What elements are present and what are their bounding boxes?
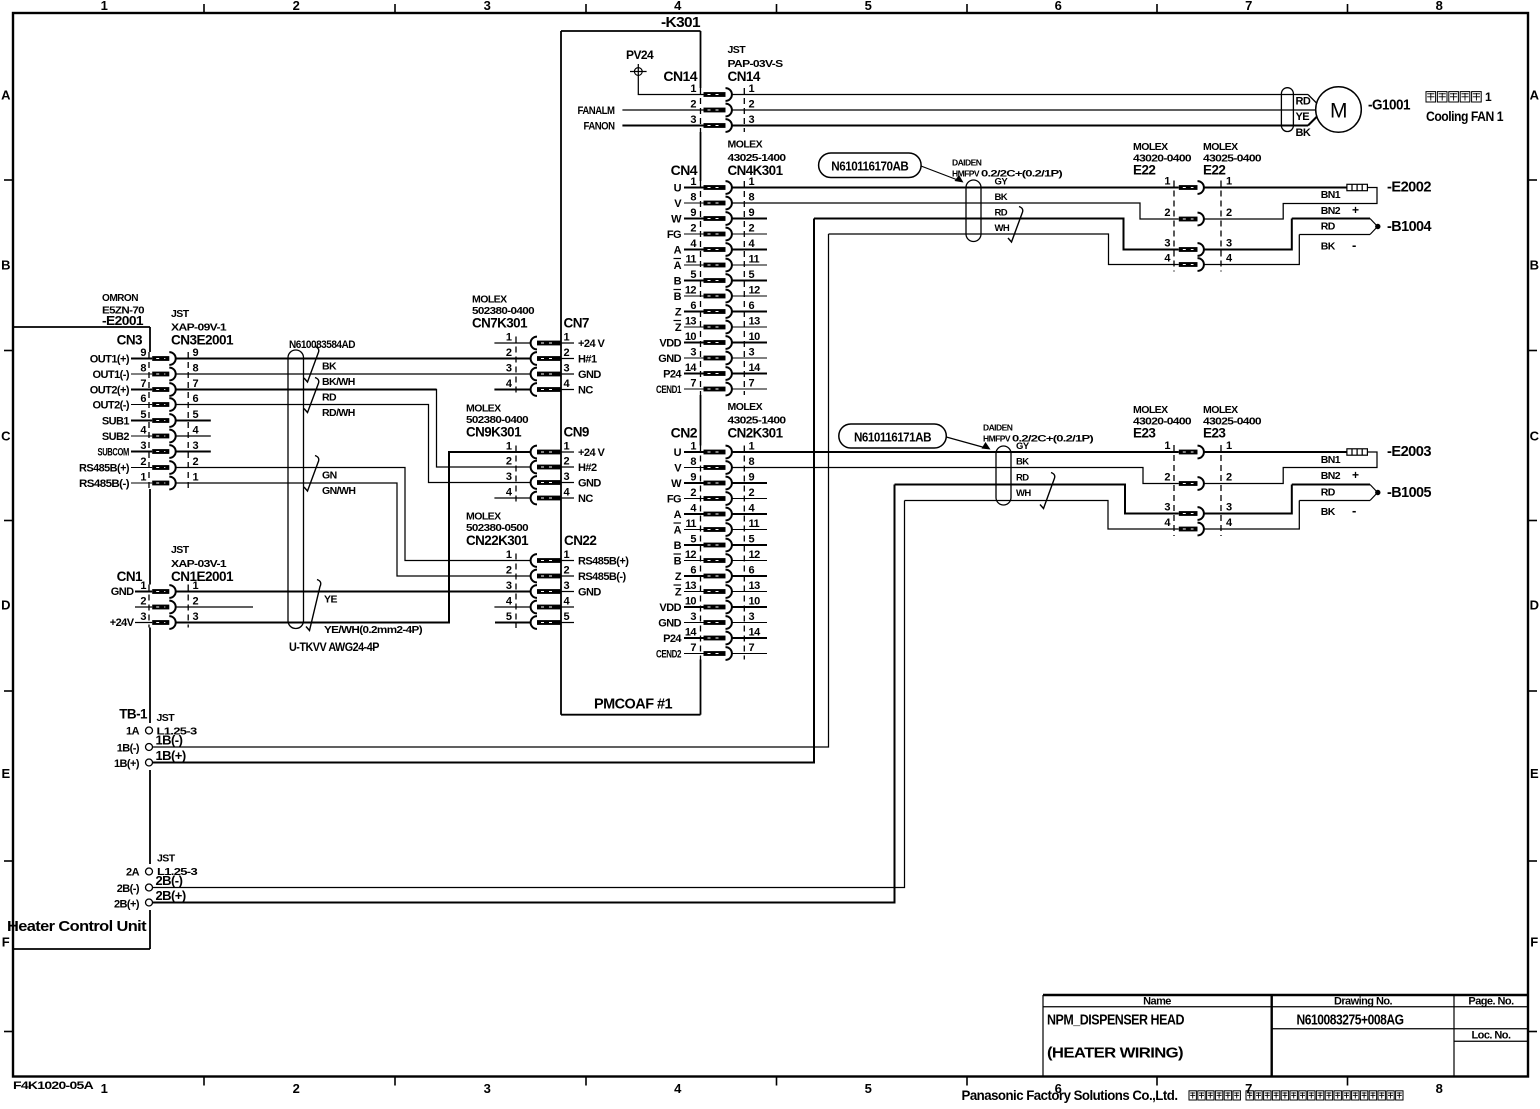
svg-text:H#2: H#2: [578, 462, 597, 474]
svg-text:7: 7: [690, 642, 696, 654]
svg-text:TB-1: TB-1: [119, 707, 148, 722]
svg-text:N610116170AB: N610116170AB: [831, 159, 908, 174]
svg-text:NC: NC: [578, 385, 593, 397]
twisted pair mark RD/WH cable 2: [1040, 473, 1055, 509]
svg-text:-: -: [1352, 503, 1356, 518]
svg-text:P24: P24: [663, 369, 682, 381]
svg-text:2: 2: [749, 487, 755, 499]
svg-text:3: 3: [140, 440, 146, 452]
heater E2002 element: [1204, 184, 1368, 190]
svg-text:1: 1: [749, 441, 755, 453]
CN22 pin 2 (RS485B(-)): [506, 565, 627, 584]
svg-text:2: 2: [690, 223, 696, 235]
svg-text:13: 13: [685, 580, 697, 592]
E23 pin 2: [1164, 472, 1232, 490]
svg-text:3: 3: [690, 611, 696, 623]
svg-text:+: +: [1352, 468, 1359, 482]
svg-text:9: 9: [193, 347, 199, 359]
svg-text:MOLEX: MOLEX: [472, 294, 507, 306]
svg-text:2: 2: [1226, 472, 1232, 484]
svg-text:A: A: [674, 260, 682, 272]
label cooling fan (Japanese): [1426, 92, 1436, 102]
CN2 pin 11 (A bar): [674, 518, 768, 537]
CN3 pin 2 (RS485B(+)): [79, 456, 199, 475]
connector pair E23 (MOLEX 43020-0400 / 43025-0400): [1133, 404, 1262, 536]
thermistor B1005 probe: [1292, 485, 1381, 501]
heater E2002 return wire BN2: [1204, 188, 1377, 220]
svg-text:VDD: VDD: [659, 602, 681, 614]
svg-text:2: 2: [506, 565, 512, 577]
motor G1001 cooling fan: [1316, 87, 1362, 133]
terminal 2B(+): [114, 888, 186, 911]
svg-text:NC: NC: [578, 493, 593, 505]
CN22 pin 5: [506, 611, 574, 629]
CN3 pin 5 (SUB1): [102, 409, 199, 428]
svg-text:CN7: CN7: [564, 316, 589, 331]
CN4 pin 4 (A): [674, 238, 767, 257]
CN2 pin 3 (GND): [658, 611, 767, 630]
svg-text:2B(-): 2B(-): [156, 873, 183, 888]
connector pair E22 (MOLEX 43020-0400 / 43025-0400): [1133, 141, 1262, 272]
svg-text:GN/WH: GN/WH: [322, 485, 355, 497]
svg-text:3: 3: [1164, 238, 1170, 250]
svg-text:2B(-): 2B(-): [117, 883, 140, 895]
CN14 pin 2: [690, 99, 754, 117]
svg-text:2: 2: [1226, 207, 1232, 219]
CN4 pin 3 (GND): [658, 347, 767, 366]
riser WH cable2 to TB 2B(-): [153, 501, 905, 888]
svg-text:9: 9: [140, 347, 146, 359]
twisted pair mark RD/RDWH: [304, 378, 319, 413]
svg-text:3: 3: [484, 0, 491, 13]
CN9 pin 3 (GND): [506, 471, 601, 490]
svg-text:F4K1020-05A: F4K1020-05A: [13, 1080, 94, 1092]
CN14 pin 3: [690, 114, 754, 132]
svg-text:GY: GY: [1016, 441, 1030, 452]
CN4 pin 2 (FG): [667, 223, 767, 242]
svg-text:10: 10: [685, 596, 697, 608]
svg-text:3: 3: [749, 611, 755, 623]
svg-text:RD: RD: [1296, 96, 1311, 108]
riser RD cable2 to TB 2B(+): [153, 485, 895, 903]
svg-text:P24: P24: [663, 633, 682, 645]
wire WH riser to E23-4: [905, 501, 1179, 530]
svg-text:CN3: CN3: [117, 333, 143, 348]
svg-text:1: 1: [564, 332, 570, 344]
svg-text:1: 1: [1226, 176, 1232, 188]
svg-text:-B1005: -B1005: [1387, 484, 1431, 501]
terminal 2B(-): [117, 873, 183, 895]
svg-text:RS485B(-): RS485B(-): [79, 478, 130, 490]
svg-text:HMFPV: HMFPV: [952, 169, 980, 179]
wire CN3-6 OUT2(-) to CN9-3 (RD/WH): [175, 405, 530, 483]
svg-text:3: 3: [193, 611, 199, 623]
svg-text:VDD: VDD: [659, 338, 681, 350]
svg-text:3: 3: [564, 580, 570, 592]
svg-text:3: 3: [564, 363, 570, 375]
svg-text:BK: BK: [1321, 506, 1336, 518]
svg-text:WH: WH: [1016, 488, 1031, 499]
svg-text:A: A: [1, 88, 11, 103]
svg-text:BN2: BN2: [1321, 470, 1341, 482]
svg-text:14: 14: [685, 627, 698, 639]
CN3 pin 1 (RS485B(-)): [79, 472, 199, 491]
terminal block TB-1 group 2: [114, 853, 198, 911]
svg-text:Page. No.: Page. No.: [1468, 996, 1514, 1008]
heater E2003 return wire BN2: [1204, 452, 1377, 484]
svg-text:7: 7: [140, 378, 146, 390]
wire CN3-2 RS485B(+) to CN22-1 (GN): [175, 468, 530, 561]
CN2 pin 4 (A): [674, 503, 767, 522]
connector CN9 of K301 (MOLEX 502380-0400, plug CN9K301): [466, 403, 606, 506]
cable 1 bundle: [966, 180, 981, 242]
svg-text:YE: YE: [324, 594, 337, 606]
svg-text:C: C: [1530, 429, 1540, 444]
Heater Control Unit enclosure outline: [13, 326, 150, 328]
svg-text:12: 12: [685, 285, 697, 297]
twisted pair mark GN/GNWH: [304, 456, 319, 492]
twisted pair mark YE/YEWH: [306, 580, 321, 631]
svg-text:CN9: CN9: [564, 425, 589, 440]
svg-text:NPM_DISPENSER HEAD: NPM_DISPENSER HEAD: [1047, 1013, 1184, 1029]
svg-text:CN1E2001: CN1E2001: [171, 569, 234, 584]
svg-text:SUB2: SUB2: [102, 431, 130, 443]
svg-text:PV24: PV24: [626, 48, 654, 62]
svg-text:BK/WH: BK/WH: [322, 376, 355, 388]
svg-text:2: 2: [749, 223, 755, 235]
svg-text:8: 8: [1436, 0, 1443, 13]
svg-text:A: A: [674, 245, 682, 257]
svg-text:Z: Z: [675, 322, 682, 334]
svg-text:2: 2: [293, 0, 300, 13]
svg-text:CN3E2001: CN3E2001: [171, 333, 234, 348]
svg-text:12: 12: [749, 549, 761, 561]
svg-text:E23: E23: [1203, 426, 1226, 441]
svg-text:1: 1: [1164, 176, 1170, 188]
connector CN2 of K301 (MOLEX 43025-1400, plug CN2K301): [656, 401, 786, 661]
svg-text:+24V: +24V: [110, 617, 135, 629]
svg-text:B: B: [674, 556, 682, 568]
CN14 pin 1: [690, 83, 754, 101]
fan lead wedge bottom: [1308, 117, 1317, 126]
svg-text:PMCOAF #1: PMCOAF #1: [594, 697, 672, 713]
svg-text:U: U: [674, 447, 682, 459]
svg-text:13: 13: [749, 316, 761, 328]
svg-text:SUB1: SUB1: [102, 416, 130, 428]
svg-text:10: 10: [749, 331, 761, 343]
CN9 pin 1 (+24 V): [506, 441, 606, 460]
svg-text:RD: RD: [1321, 221, 1336, 233]
wire CN2-8 V to E23-2 (BK): [732, 468, 1179, 484]
CN7 pin 4 (NC): [506, 378, 593, 397]
svg-text:1: 1: [690, 176, 696, 188]
svg-text:7: 7: [193, 378, 199, 390]
svg-text:1B(+): 1B(+): [114, 758, 140, 770]
svg-text:1: 1: [564, 549, 570, 561]
svg-text:3: 3: [690, 114, 696, 126]
svg-text:2: 2: [749, 99, 755, 111]
svg-text:W: W: [671, 214, 682, 226]
CN2 pin 9 (W): [671, 472, 767, 491]
svg-text:N610083584AD: N610083584AD: [289, 339, 356, 351]
svg-text:8: 8: [749, 192, 755, 204]
E22 pin 3: [1164, 238, 1232, 256]
svg-text:3: 3: [193, 440, 199, 452]
svg-text:2: 2: [1164, 207, 1170, 219]
svg-text:B: B: [674, 540, 682, 552]
CN3 pin 6 (OUT2(-)): [93, 393, 199, 412]
connector CN22 of K301 (MOLEX 502380-0500, plug CN22K301): [466, 511, 629, 629]
svg-text:Heater Control Unit: Heater Control Unit: [7, 918, 147, 935]
svg-text:JST: JST: [171, 544, 190, 556]
svg-text:JST: JST: [157, 712, 176, 724]
svg-text:GND: GND: [658, 353, 681, 365]
svg-text:RD/WH: RD/WH: [322, 407, 355, 419]
svg-text:2: 2: [140, 456, 146, 468]
svg-text:RS485B(+): RS485B(+): [578, 556, 629, 568]
CN1 pin 2: [135, 596, 199, 614]
CN4 pin 14 (P24): [663, 362, 767, 381]
svg-text:2: 2: [564, 456, 570, 468]
CN4 pin 11 (A bar): [674, 254, 768, 273]
svg-text:MOLEX: MOLEX: [1203, 141, 1238, 153]
svg-text:1: 1: [1485, 90, 1492, 104]
svg-text:A: A: [1530, 88, 1540, 103]
svg-text:JST: JST: [157, 853, 176, 865]
svg-text:CN4K301: CN4K301: [728, 163, 784, 178]
svg-text:8: 8: [749, 456, 755, 468]
svg-text:3: 3: [1226, 502, 1232, 514]
svg-text:5: 5: [865, 0, 872, 13]
svg-text:Z: Z: [675, 587, 682, 599]
CN4 pin 1 (U): [674, 176, 755, 195]
svg-text:7: 7: [749, 378, 755, 390]
twisted pair mark BK/BKWH: [304, 347, 319, 383]
svg-text:1: 1: [564, 441, 570, 453]
svg-text:GND: GND: [578, 587, 601, 599]
CN2 pin 7 (CEND2): [656, 642, 767, 661]
svg-text:BK: BK: [995, 192, 1008, 203]
CN2 pin 2 (FG): [667, 487, 767, 506]
svg-text:3: 3: [749, 347, 755, 359]
K301 board outline (PMCOAF #1): [561, 30, 701, 32]
svg-text:Drawing No.: Drawing No.: [1334, 996, 1393, 1008]
svg-text:9: 9: [690, 472, 696, 484]
svg-text:6: 6: [690, 565, 696, 577]
svg-text:JST: JST: [728, 44, 747, 56]
E23 pin 4: [1164, 517, 1233, 535]
svg-text:11: 11: [685, 518, 696, 530]
svg-text:9: 9: [749, 207, 755, 219]
svg-text:E: E: [1, 766, 10, 781]
svg-text:N610083275+008AG: N610083275+008AG: [1297, 1013, 1404, 1029]
svg-text:-: -: [1352, 238, 1356, 253]
CN4 pin 12 (B bar): [674, 285, 768, 304]
svg-text:5: 5: [193, 409, 199, 421]
svg-text:2: 2: [193, 456, 199, 468]
wire RD riser to E22-3 (thick): [814, 219, 1179, 250]
svg-text:GND: GND: [578, 369, 601, 381]
svg-text:5: 5: [690, 534, 696, 546]
stub CN1-2: [175, 606, 253, 608]
svg-text:M: M: [1330, 100, 1347, 123]
svg-text:8: 8: [193, 363, 199, 375]
svg-text:BK: BK: [1321, 241, 1336, 253]
heater E2003 element: [1204, 449, 1368, 455]
svg-text:2: 2: [193, 596, 199, 608]
svg-text:2B(+): 2B(+): [114, 899, 140, 911]
svg-text:2: 2: [293, 1081, 300, 1096]
svg-text:1: 1: [506, 549, 512, 561]
svg-text:6: 6: [193, 393, 199, 405]
svg-text:B: B: [674, 276, 682, 288]
svg-text:CN2: CN2: [671, 425, 698, 441]
E23 pin 3: [1164, 502, 1232, 520]
CN1 pin 3 (+24V): [110, 611, 199, 629]
CN3 pin 9 (OUT1(+)): [90, 347, 199, 366]
svg-text:2: 2: [564, 347, 570, 359]
wire CN4-1 U to E22-1 (GY, thick): [732, 187, 1179, 189]
svg-text:F: F: [1530, 935, 1538, 950]
svg-text:FANALM: FANALM: [578, 105, 615, 117]
svg-text:1: 1: [140, 472, 146, 484]
svg-text:13: 13: [685, 316, 697, 328]
stub CN7-4 NC: [494, 389, 530, 391]
CN22 pin 3 (GND): [506, 580, 601, 599]
svg-text:CEND1: CEND1: [656, 384, 681, 396]
svg-text:8: 8: [690, 192, 696, 204]
svg-text:1B(-): 1B(-): [156, 733, 183, 748]
svg-text:9: 9: [749, 472, 755, 484]
svg-text:DAIDEN: DAIDEN: [952, 158, 982, 168]
svg-text:CN14: CN14: [663, 68, 697, 84]
svg-text:OUT1(-): OUT1(-): [93, 369, 130, 381]
wire RD riser to E23-3 (thick): [895, 485, 1179, 514]
leader arrow to cable 2: [946, 437, 986, 448]
svg-text:-B1004: -B1004: [1387, 218, 1432, 235]
svg-text:JST: JST: [171, 308, 190, 320]
svg-text:2: 2: [140, 596, 146, 608]
svg-text:6: 6: [690, 300, 696, 312]
CN4 pin 13 (Z bar): [674, 316, 768, 335]
svg-text:5: 5: [564, 611, 570, 623]
CN4 pin 8 (V): [674, 192, 754, 211]
fan lead wedge top: [1308, 95, 1317, 104]
svg-text:14: 14: [685, 362, 698, 374]
svg-text:+: +: [1352, 203, 1359, 217]
CN2 pin 5 (B): [674, 534, 767, 553]
svg-text:1: 1: [1164, 440, 1170, 452]
svg-text:-K301: -K301: [661, 15, 701, 31]
svg-text:11: 11: [749, 254, 760, 266]
svg-text:11: 11: [749, 518, 760, 530]
svg-text:8: 8: [140, 363, 146, 375]
svg-text:3: 3: [140, 611, 146, 623]
CN2 pin 6 (Z): [675, 565, 767, 584]
CN3 pin 7 (OUT2(+)): [90, 378, 199, 397]
svg-text:3: 3: [1226, 238, 1232, 250]
svg-text:Panasonic Factory Solutions Co: Panasonic Factory Solutions Co.,Ltd.: [962, 1087, 1178, 1103]
svg-text:RS485B(-): RS485B(-): [578, 571, 627, 583]
stub CN7-1 +24V: [494, 342, 530, 344]
svg-text:3: 3: [690, 347, 696, 359]
svg-text:MOLEX: MOLEX: [466, 511, 501, 523]
wire CN3-9 OUT1(+) to CN7-2 H#1 (BK): [175, 358, 530, 360]
svg-text:RD: RD: [1016, 473, 1029, 484]
svg-text:3: 3: [749, 114, 755, 126]
svg-text:14: 14: [749, 362, 762, 374]
CN7 pin 1 (+24 V): [506, 332, 606, 351]
wire CN2-1 U to E23-1 (GY, thick): [732, 451, 1179, 453]
CN2 pin 1 (U): [674, 441, 755, 460]
svg-text:1: 1: [749, 83, 755, 95]
CN2 pin 12 (B bar): [674, 549, 768, 568]
svg-text:MOLEX: MOLEX: [728, 401, 763, 413]
svg-text:-E2003: -E2003: [1387, 443, 1431, 460]
svg-text:DAIDEN: DAIDEN: [983, 423, 1013, 433]
svg-text:A: A: [674, 509, 682, 521]
svg-text:MOLEX: MOLEX: [1133, 141, 1168, 153]
svg-text:BK: BK: [322, 361, 337, 373]
svg-text:Z: Z: [675, 571, 682, 583]
svg-text:B: B: [1530, 258, 1539, 273]
svg-text:-G1001: -G1001: [1368, 97, 1410, 114]
CN4 pin 6 (Z): [675, 300, 767, 319]
svg-text:CN14: CN14: [728, 69, 761, 84]
svg-text:GND: GND: [578, 478, 601, 490]
svg-text:BN1: BN1: [1321, 189, 1341, 201]
CN1 pin 1 (GND): [111, 580, 199, 598]
svg-text:GND: GND: [111, 586, 134, 598]
svg-text:10: 10: [749, 596, 761, 608]
stub CN3-4 SUB2: [175, 435, 210, 437]
twisted pair mark RD/WH cable 1: [1008, 207, 1023, 243]
svg-text:1: 1: [690, 441, 696, 453]
wire E22-3 to B1004 RD: [1204, 219, 1292, 250]
svg-text:U: U: [674, 183, 682, 195]
svg-text:F: F: [2, 935, 10, 950]
wire CN3-1 RS485B(-) to CN22-2 (GN/WH): [175, 483, 530, 576]
svg-text:RD: RD: [322, 392, 337, 404]
wire CN14-2 to fan (YE): [732, 109, 1316, 111]
cable callout N610116171AB: [839, 424, 947, 448]
terminal 1B(+): [114, 748, 186, 770]
svg-text:W: W: [671, 478, 682, 490]
svg-text:WH: WH: [995, 223, 1010, 234]
svg-text:BN2: BN2: [1321, 205, 1341, 217]
CN4 pin 9 (W): [671, 207, 767, 226]
svg-text:CN7K301: CN7K301: [472, 316, 528, 331]
E22 pin 4: [1164, 253, 1233, 271]
svg-text:OUT2(+): OUT2(+): [90, 385, 130, 397]
svg-text:D: D: [1530, 598, 1539, 613]
svg-text:2: 2: [506, 347, 512, 359]
svg-text:CN22K301: CN22K301: [466, 533, 529, 548]
svg-text:CN2K301: CN2K301: [728, 426, 784, 441]
stub CN22-5: [495, 622, 531, 624]
svg-text:2: 2: [564, 565, 570, 577]
svg-text:1B(-): 1B(-): [117, 743, 140, 755]
svg-text:Loc. No.: Loc. No.: [1472, 1030, 1511, 1042]
svg-text:12: 12: [749, 285, 761, 297]
CN22 pin 1 (RS485B(+)): [506, 549, 629, 568]
svg-text:2: 2: [690, 487, 696, 499]
svg-text:1: 1: [101, 0, 108, 13]
stub CN22-4: [494, 606, 530, 608]
wire CN3-8 OUT1(-) to CN7-3 GND (BK/WH): [175, 373, 530, 375]
svg-text:5: 5: [140, 409, 146, 421]
CN9 pin 2 (H#2): [506, 456, 597, 475]
